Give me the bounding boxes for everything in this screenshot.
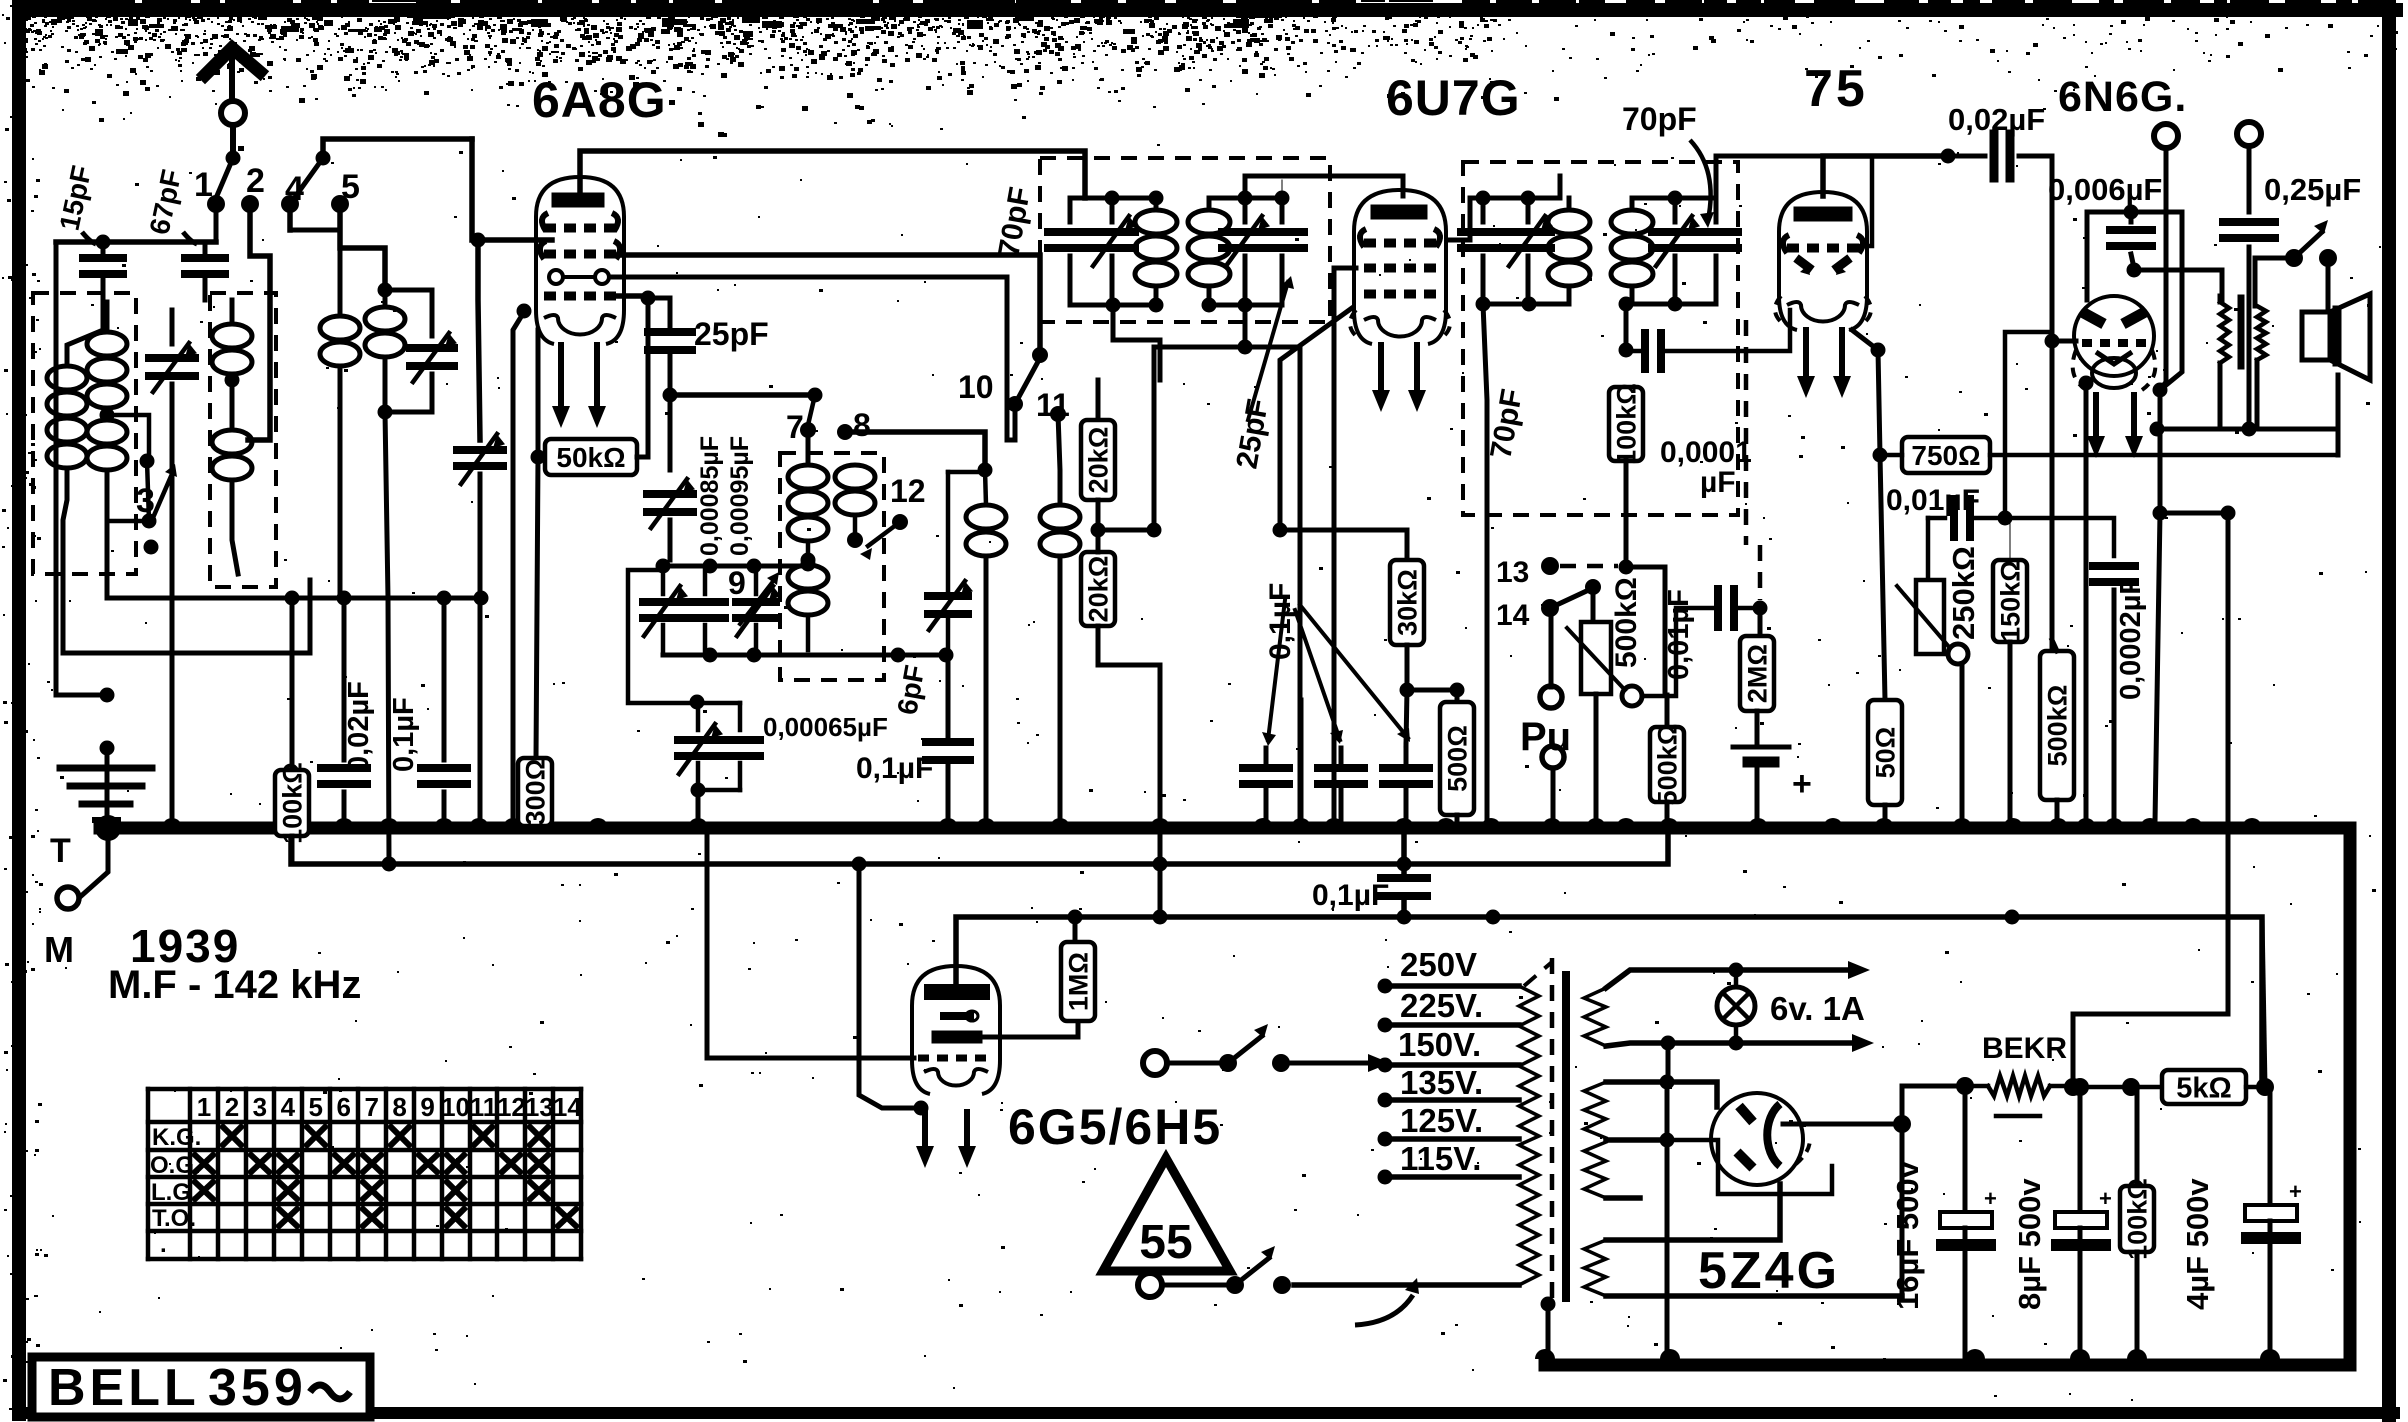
wire B+ speaker line [2160, 511, 2228, 516]
svg-text:0,0002µF: 0,0002µF [2115, 577, 2147, 700]
oscillator coil 1 [788, 465, 828, 489]
IF1 coil left [1154, 198, 1159, 208]
bus junction x344 [334, 818, 354, 828]
6A8G side line [513, 312, 524, 822]
svg-text:135V.: 135V. [1400, 1064, 1483, 1101]
RF coil E [378, 283, 393, 298]
wire switch right down [2326, 258, 2331, 310]
resistor 750 Ohm [1902, 437, 1990, 473]
bus junction x1060 [1050, 818, 1070, 828]
5V top lead [1606, 1184, 1780, 1240]
node antenna switch pole [226, 151, 241, 166]
svg-text:BEKR: BEKR [1982, 1032, 2067, 1065]
AVC rail dots [285, 591, 300, 606]
tilde symbol [310, 1385, 350, 1399]
X marks O.G. row [195, 1155, 213, 1172]
resistor 20kOhm lower [1081, 552, 1115, 626]
node 13 junction [1619, 560, 1634, 575]
switch blade 1-2 [216, 158, 233, 198]
svg-text:359: 359 [208, 1359, 307, 1417]
svg-text:13: 13 [1496, 556, 1529, 589]
75 anode [1801, 207, 1845, 222]
svg-text:0,1µF: 0,1µF [388, 697, 420, 772]
svg-text:10: 10 [958, 369, 994, 405]
rectifier output riser [1902, 1086, 1965, 1124]
svg-text:6U7G: 6U7G [1386, 70, 1521, 126]
svg-text:100kΩ: 100kΩ [2123, 1178, 2153, 1260]
capacitor 0,0002uF [2093, 562, 2135, 570]
IF2 top rail left [1470, 196, 1560, 201]
6U7G anode [1378, 205, 1420, 220]
svg-text:13: 13 [525, 1092, 554, 1122]
svg-text:0,00085µF: 0,00085µF [696, 436, 724, 556]
resistor 500kOhm grid [1665, 695, 1670, 727]
IF2 coil right [1630, 198, 1635, 208]
bus junction x1404 [1394, 818, 1414, 828]
resistor 100kOhm [290, 598, 295, 770]
capacitor 0,25uF [2247, 146, 2252, 212]
mains switch bottom [1138, 1273, 1162, 1297]
switch blade 10 [1015, 358, 1040, 404]
wire switch left [2255, 258, 2294, 306]
IF2 left junction down to bus [1483, 304, 1487, 822]
wire to antenna rail left [56, 242, 107, 695]
capacitor 16uF electrolytic [1963, 1086, 1968, 1212]
bus junction x1552 [1542, 818, 1562, 828]
6N6G skirt [2073, 350, 2086, 390]
resistor 100kOhm bleeder [2135, 1087, 2140, 1186]
wire 5k junction up [2262, 917, 2265, 1087]
IF transformer 2 box (dashed) [1463, 162, 1738, 515]
terminal PU top [1540, 686, 1562, 708]
IF2 cap left [1481, 198, 1486, 222]
wire padder to bus [696, 790, 701, 822]
svg-text:1: 1 [197, 1092, 211, 1122]
svg-text:100kΩ: 100kΩ [278, 762, 308, 844]
variable capacitor RF tuning [457, 446, 503, 454]
svg-text:225V.: 225V. [1400, 987, 1483, 1024]
6G5 bottom dome [924, 1069, 988, 1086]
resistor BEKR [1988, 1076, 2050, 1096]
contact 8 [837, 424, 853, 440]
power bus junction x2270 [2260, 1349, 2280, 1359]
power bus junction x2137 [2127, 1349, 2147, 1359]
wire 0,006 left to anode [2085, 212, 2090, 300]
interstage coil right [1040, 505, 1080, 529]
resistor 50 Ohm [1880, 455, 1885, 700]
title box BELL 359 [32, 1357, 370, 1417]
svg-text:T.O.: T.O. [152, 1205, 196, 1232]
IF1 secondary top wire to 6U7G [1281, 180, 1283, 198]
svg-text:100kΩ: 100kΩ [1612, 383, 1642, 465]
IF1 varcap left [1110, 198, 1115, 222]
wire osc grid vertical [469, 139, 475, 240]
5Z4G cathode [1767, 1104, 1780, 1166]
svg-text:0,25µF: 0,25µF [2264, 172, 2361, 207]
HV top lead [1606, 1082, 1717, 1107]
bus junction x598 [588, 818, 608, 828]
svg-text:K.G.: K.G. [152, 1124, 201, 1151]
6G5 top wire [954, 917, 959, 988]
svg-text:11: 11 [470, 1092, 498, 1122]
6U7G filament arrows [1378, 345, 1384, 396]
mains terminal top [1143, 1051, 1167, 1075]
capacitor padder 2 [703, 566, 708, 594]
power bus junction x1670 [1660, 1349, 1680, 1359]
svg-text:3: 3 [253, 1092, 267, 1122]
6N6G grid bars [2082, 312, 2104, 324]
capacitor 0,1uF a [1264, 748, 1269, 762]
svg-text:25pF: 25pF [694, 316, 769, 352]
IF1 top rail right [1209, 196, 1282, 201]
6A8G filament arrows [558, 345, 564, 412]
wire 8 right [845, 432, 985, 470]
resistor 2MOhm [1758, 608, 1763, 636]
wire speaker down [2336, 375, 2341, 455]
svg-text:55: 55 [1139, 1216, 1192, 1269]
6A8G bottom dome [544, 315, 616, 335]
trimmer capacitor antenna [170, 310, 175, 344]
AVC junction dots [382, 857, 397, 872]
svg-text:14: 14 [1496, 599, 1530, 632]
svg-text:0,00095µF: 0,00095µF [726, 436, 754, 556]
bus junction x1626 [1616, 818, 1636, 828]
svg-text:115V.: 115V. [1400, 1140, 1481, 1177]
6U7G anode wire to IF2 [1448, 198, 1470, 240]
IF1 right bottom wire down to B+ [1238, 340, 1253, 355]
svg-text:BELL: BELL [48, 1359, 200, 1417]
svg-text:0,02µF: 0,02µF [343, 681, 375, 772]
bus junction x1884 [1874, 818, 1894, 828]
svg-text:5kΩ: 5kΩ [2176, 1072, 2232, 1104]
svg-text:+: + [1792, 765, 1812, 803]
75 grid row [1787, 244, 1799, 253]
svg-text:5Z4G: 5Z4G [1698, 1242, 1840, 1300]
bus junction x172 [162, 818, 182, 828]
IF2 bottom rail right [1626, 302, 1716, 307]
svg-text:M: M [44, 929, 74, 970]
wire contact5 down [340, 204, 385, 290]
6G5 anode bar [938, 1031, 976, 1044]
svg-text:7: 7 [364, 1092, 378, 1122]
bus junction x1962 [1952, 818, 1972, 828]
heater secondary [1584, 988, 1606, 1046]
svg-text:250kΩ: 250kΩ [1946, 546, 1981, 640]
wire 7 down to osc coil [806, 430, 811, 465]
bus junction x513 [503, 818, 523, 828]
svg-text:1: 1 [194, 166, 213, 204]
resistor 50kOhm [531, 450, 546, 465]
6A8G anode [559, 193, 597, 208]
wire osc g line [612, 277, 1015, 440]
svg-text:150kΩ: 150kΩ [1996, 560, 2026, 642]
coil taps to switch [107, 415, 149, 461]
wire 0,01 junction up to grid jog [2005, 332, 2050, 518]
bus junction x1334 [1324, 818, 1344, 828]
svg-text:250V: 250V [1400, 946, 1477, 983]
node 10 top [1032, 347, 1048, 363]
bus junction x2086 [2076, 818, 2096, 828]
IF1 varcap right [1243, 198, 1248, 222]
capacitor padder 5 [697, 701, 740, 706]
svg-text:125V.: 125V. [1400, 1102, 1483, 1139]
wire contact4 top [287, 204, 293, 230]
RF coil lower [212, 430, 252, 454]
bus junction x2150 [2140, 818, 2160, 828]
terminal ring 1 [2154, 124, 2178, 148]
bus junction x2193 [2183, 818, 2203, 828]
power bus junction x1975 [1965, 1349, 1985, 1359]
resistor 150kOhm [2009, 518, 2011, 560]
power bus junction x2080 [2070, 1349, 2090, 1359]
resistor 20kOhm upper [1096, 380, 1101, 420]
arrows to caps [1268, 600, 1285, 740]
6G5 filament [914, 1101, 929, 1116]
contact 11 [1050, 406, 1066, 422]
wire terminal1 down [2160, 148, 2166, 390]
wire contact4 down [290, 228, 340, 233]
contact 4 [281, 195, 299, 213]
capacitor 0,1uF b [1339, 748, 1344, 762]
capacitor 0,02uF [342, 598, 347, 760]
wire AVC to 6G5 [859, 864, 916, 1108]
wire RF coil to bus line [385, 412, 389, 864]
wire 30k down [1406, 690, 1407, 745]
5Z4G plates [1739, 1106, 1753, 1122]
svg-text:1MΩ: 1MΩ [1064, 952, 1094, 1011]
svg-text:50Ω: 50Ω [1871, 727, 1901, 779]
switch blade 14 [1550, 588, 1593, 608]
6A8G cathode line [536, 330, 538, 758]
interstage coil left [985, 470, 986, 505]
contact 7 [800, 422, 816, 438]
ground bus [100, 828, 2350, 1365]
tap dots [1378, 979, 1393, 994]
6G5 dash row [918, 1055, 929, 1062]
bus junction x1669 [1659, 818, 1679, 828]
bus junction x2252 [2242, 818, 2262, 828]
svg-text:6G5/6H5: 6G5/6H5 [1008, 1099, 1222, 1155]
bus junction x536 [526, 818, 546, 828]
svg-text:2: 2 [246, 162, 265, 200]
wire grid2 right [2134, 270, 2222, 302]
rectifier secondary 5V [1584, 1240, 1606, 1296]
svg-text:70pF: 70pF [1622, 101, 1697, 137]
bus junction x1301 [1291, 818, 1311, 828]
svg-text:300Ω: 300Ω [521, 759, 551, 826]
output transformer secondary [2257, 306, 2266, 360]
wire osc junction right [670, 392, 815, 398]
svg-text:6v. 1A: 6v. 1A [1770, 990, 1865, 1027]
heater CT wire down [1661, 1036, 1676, 1051]
terminal PU bottom [1542, 746, 1564, 768]
IF2 bottom rail left [1483, 302, 1569, 307]
wire contact1 to cap rail [214, 204, 219, 240]
RF coil D [338, 230, 343, 315]
potentiometer 250kOhm tone [1916, 580, 1944, 654]
HV bottom lead [1606, 1195, 1640, 1201]
5Z4G cathode lead [1783, 1122, 1902, 1127]
variable capacitor padder 4 [696, 703, 701, 730]
IF2 cap right [1714, 198, 1719, 222]
IF2 varcap right [1673, 198, 1678, 222]
svg-text:150V.: 150V. [1398, 1026, 1481, 1063]
switch top right [2285, 249, 2303, 267]
contact 13 [1541, 557, 1559, 575]
svg-text:12: 12 [890, 473, 926, 509]
speaker return rail [2157, 427, 2338, 432]
6N6G dash row [2082, 339, 2092, 347]
svg-text:0,01µF: 0,01µF [1663, 589, 1695, 680]
wire 11 down [1058, 414, 1060, 505]
contact 14 [1541, 599, 1559, 617]
svg-text:0,1µF: 0,1µF [856, 752, 933, 785]
wire bus to 6G5 grid [707, 836, 914, 1058]
HV mid lead [1606, 1137, 1667, 1143]
contact 2 [241, 195, 259, 213]
svg-text:10: 10 [441, 1092, 470, 1122]
75 filament arrows [1803, 330, 1809, 382]
IF1 bottom rail left [1070, 303, 1156, 308]
75 bottom dome [1787, 302, 1859, 322]
capacitor 0,1uF (bus decoupling) [1401, 836, 1407, 876]
switch 3 contacts [140, 454, 155, 469]
HV secondary lower [1584, 1142, 1606, 1198]
RF coil upper [230, 300, 235, 322]
svg-text:16µF 500v: 16µF 500v [1890, 1160, 1925, 1310]
bus junction x444 [434, 818, 454, 828]
6A8G grid rows [542, 213, 548, 231]
tube 5Z4G envelope [1711, 1093, 1803, 1185]
svg-text:500kΩ: 500kΩ [1653, 724, 1683, 806]
6A8G g-row to 25pF [610, 293, 648, 299]
6A8G top cap wire [580, 151, 1085, 198]
svg-text:0,006µF: 0,006µF [2048, 172, 2162, 207]
antenna terminal [221, 101, 245, 125]
bus junction x948 [938, 818, 958, 828]
6U7G grid wire left [1334, 268, 1356, 822]
bus junction x1833 [1823, 818, 1843, 828]
AVC line [291, 836, 1668, 864]
svg-text:µF: µF [1700, 466, 1736, 499]
contact 1 [207, 195, 225, 213]
IF2 varcap left [1526, 198, 1531, 222]
bus junction x2058 [2048, 818, 2068, 828]
B+ distribution line [956, 917, 2262, 1086]
bus junction x479 [469, 818, 489, 828]
switch position table [146, 1089, 151, 1259]
power bus junction x1545 [1535, 1349, 1555, 1359]
capacitor 0,006uF [2087, 210, 2182, 215]
B+ line dots [1068, 910, 1083, 925]
6U7G grid rows [1360, 229, 1366, 247]
node 10 top wire [1038, 310, 1043, 355]
5V bottom lead [1606, 1293, 1902, 1299]
oscillator coil 2 [835, 465, 875, 489]
capacitor 0,1uF input [442, 598, 447, 760]
antenna coil primary [67, 300, 103, 365]
junction dot 15pF [96, 235, 111, 250]
svg-text:5: 5 [309, 1092, 323, 1122]
6U7G cathode diagonal [1280, 308, 1352, 530]
IF1 bottom rail right [1209, 303, 1282, 308]
capacitor 4uF electrolytic [2268, 1087, 2273, 1205]
primary bottom lead [1294, 1282, 1519, 1288]
wire 6N6G fil down [2084, 390, 2089, 822]
6A8G grid1 wire to oscillator [478, 237, 552, 243]
wire trimmer to bus [170, 430, 175, 822]
wire IF2 right bottom down [1624, 304, 1629, 350]
IF1 left bottom wire down [1113, 305, 1160, 380]
svg-text:0,00065µF: 0,00065µF [763, 712, 888, 742]
wire down to bus 2150 [2155, 513, 2160, 822]
svg-text:12: 12 [497, 1092, 526, 1122]
wire 250k wiper down [1960, 664, 1965, 822]
svg-text:500kΩ: 500kΩ [2043, 685, 2073, 767]
AVC upper rail [107, 596, 481, 601]
antenna cap rail [56, 239, 216, 245]
6A8G g-pins [549, 270, 563, 284]
wire screen feed up [1154, 347, 1245, 530]
capacitor 0,01uF AF [1714, 589, 1722, 627]
capacitor 8uF electrolytic [2078, 1087, 2083, 1212]
padder lower bottom rail [698, 788, 740, 793]
resistor 300 Ohm [518, 758, 552, 826]
svg-text:500kΩ: 500kΩ [1610, 577, 1643, 668]
node 20k mid [1091, 523, 1106, 538]
svg-text:8µF 500v: 8µF 500v [2012, 1178, 2047, 1310]
svg-text:T: T [50, 832, 71, 870]
resistor 5kOhm [2131, 1085, 2162, 1090]
tap wires [1385, 983, 1519, 989]
resistor 100kOhm IF [1609, 387, 1643, 461]
bus junction x986 [976, 818, 996, 828]
arrow mains bottom [1355, 1295, 1413, 1325]
wire coil sec to AVC rail [105, 540, 110, 598]
contact 5 [331, 195, 349, 213]
bus junction x1446 [1436, 818, 1456, 828]
6N6G inner dome [2092, 358, 2136, 388]
pot wiper 500k [1567, 628, 1625, 690]
6U7G bottom dome [1364, 317, 1436, 337]
wire contact2 down [248, 204, 270, 440]
svg-text:0,1µF: 0,1µF [1312, 879, 1389, 912]
svg-text:+: + [2099, 1186, 2112, 1211]
padder bottom rail [663, 653, 946, 658]
wire switch to tap arrow [1281, 1061, 1376, 1066]
75 envelope right wire [1854, 156, 1872, 246]
6N6G cathode vee [2096, 352, 2132, 364]
X marks T.O. row [279, 1209, 297, 1226]
6A8G g4 wire right [607, 255, 1040, 355]
wire PU bottom to bus [1551, 768, 1556, 822]
oscillator coil box (dashed) [780, 453, 884, 680]
75 diode plates [1796, 258, 1812, 270]
svg-text:75: 75 [1804, 60, 1868, 118]
oscillator coil 3 [788, 565, 828, 589]
trimmer capacitor RF [385, 290, 432, 336]
bus junction x1596 [1586, 818, 1606, 828]
capacitor 0,02uF coupling [1948, 154, 1985, 159]
mains switch top [1167, 1061, 1228, 1066]
heater bottom lead [1606, 1043, 1860, 1046]
bus junction x2013 [2003, 818, 2023, 828]
wire IF2 secondary to 75 grid cap [1716, 156, 1823, 198]
svg-text:30kΩ: 30kΩ [1393, 569, 1423, 636]
resistor 500 Ohm [1455, 690, 1460, 702]
core ground stub [1541, 1297, 1556, 1312]
svg-text:0,02µF: 0,02µF [1948, 102, 2045, 137]
